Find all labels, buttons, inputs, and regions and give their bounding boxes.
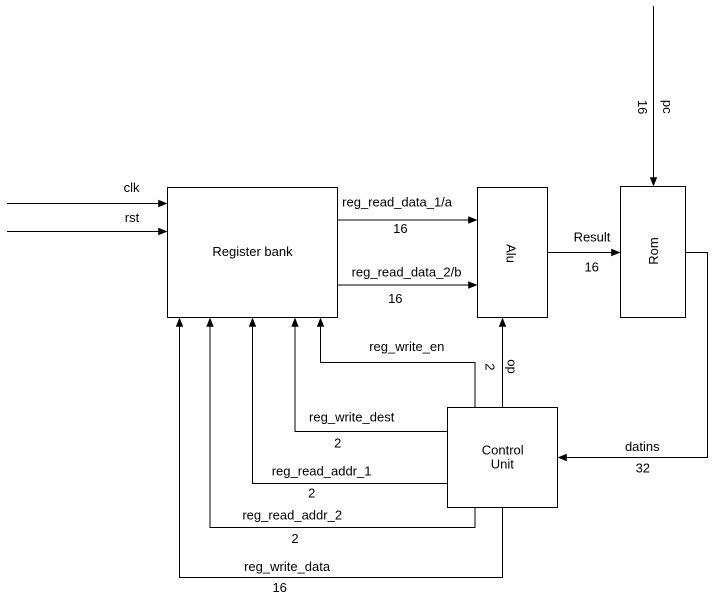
- svg-text:reg_read_data_1/a: reg_read_data_1/a: [342, 194, 453, 209]
- wire datins from Rom right to Control Unit, width 32: [558, 253, 708, 476]
- svg-text:16: 16: [635, 100, 650, 114]
- svg-text:rst: rst: [125, 210, 140, 225]
- wire reg_read_addr_1 from Control Unit left to Register bank bottom, width 2: [249, 318, 448, 501]
- wire rst into Register bank: [7, 210, 168, 235]
- wire reg_read_data_1/a from Register bank to Alu, width 16: [338, 194, 478, 236]
- svg-text:Control: Control: [482, 443, 524, 458]
- svg-text:16: 16: [388, 291, 402, 306]
- block Alu U-ALU: [478, 188, 548, 318]
- svg-text:clk: clk: [124, 180, 140, 195]
- block Register bank: [168, 188, 338, 318]
- svg-text:2: 2: [334, 436, 341, 451]
- wire reg_write_data from Control Unit bottom to Register bank bottom, width 16: [176, 318, 503, 595]
- svg-text:reg_write_data: reg_write_data: [244, 559, 331, 574]
- wire Result from Alu to Rom, width 16: [548, 230, 621, 275]
- svg-text:reg_read_addr_2: reg_read_addr_2: [242, 508, 342, 523]
- svg-text:16: 16: [272, 580, 286, 595]
- svg-text:reg_read_addr_1: reg_read_addr_1: [272, 464, 372, 479]
- wire reg_write_en from Control Unit top to Register bank bottom: [317, 318, 475, 408]
- svg-text:Unit: Unit: [491, 457, 515, 472]
- svg-text:Alu: Alu: [504, 244, 519, 263]
- block Control Unit: [448, 408, 558, 508]
- svg-text:2: 2: [308, 486, 315, 501]
- svg-text:datins: datins: [625, 439, 660, 454]
- wire op from Control Unit to Alu bottom, width 2: [483, 318, 520, 408]
- wire pc into Rom top, width 16: [635, 6, 675, 187]
- wire reg_read_data_2/b from Register bank to Alu, width 16: [338, 264, 478, 306]
- svg-text:16: 16: [584, 260, 598, 275]
- wire reg_read_addr_2 from Control Unit bottom to Register bank bottom, width 2: [206, 318, 475, 546]
- svg-text:pc: pc: [660, 100, 675, 114]
- svg-text:Result: Result: [574, 230, 611, 245]
- svg-text:16: 16: [393, 221, 407, 236]
- svg-text:op: op: [504, 359, 519, 373]
- svg-text:reg_write_en: reg_write_en: [369, 339, 444, 354]
- svg-text:reg_write_dest: reg_write_dest: [309, 410, 395, 425]
- svg-text:2: 2: [291, 531, 298, 546]
- wire clk into Register bank: [7, 180, 168, 207]
- wire reg_write_dest from Control Unit left to Register bank bottom, width 2: [291, 318, 447, 451]
- block Rom: [621, 187, 686, 318]
- svg-text:32: 32: [636, 460, 650, 475]
- svg-text:Rom: Rom: [646, 237, 661, 264]
- svg-text:reg_read_data_2/b: reg_read_data_2/b: [352, 264, 462, 279]
- svg-text:Register bank: Register bank: [212, 244, 293, 259]
- svg-text:2: 2: [483, 363, 498, 370]
